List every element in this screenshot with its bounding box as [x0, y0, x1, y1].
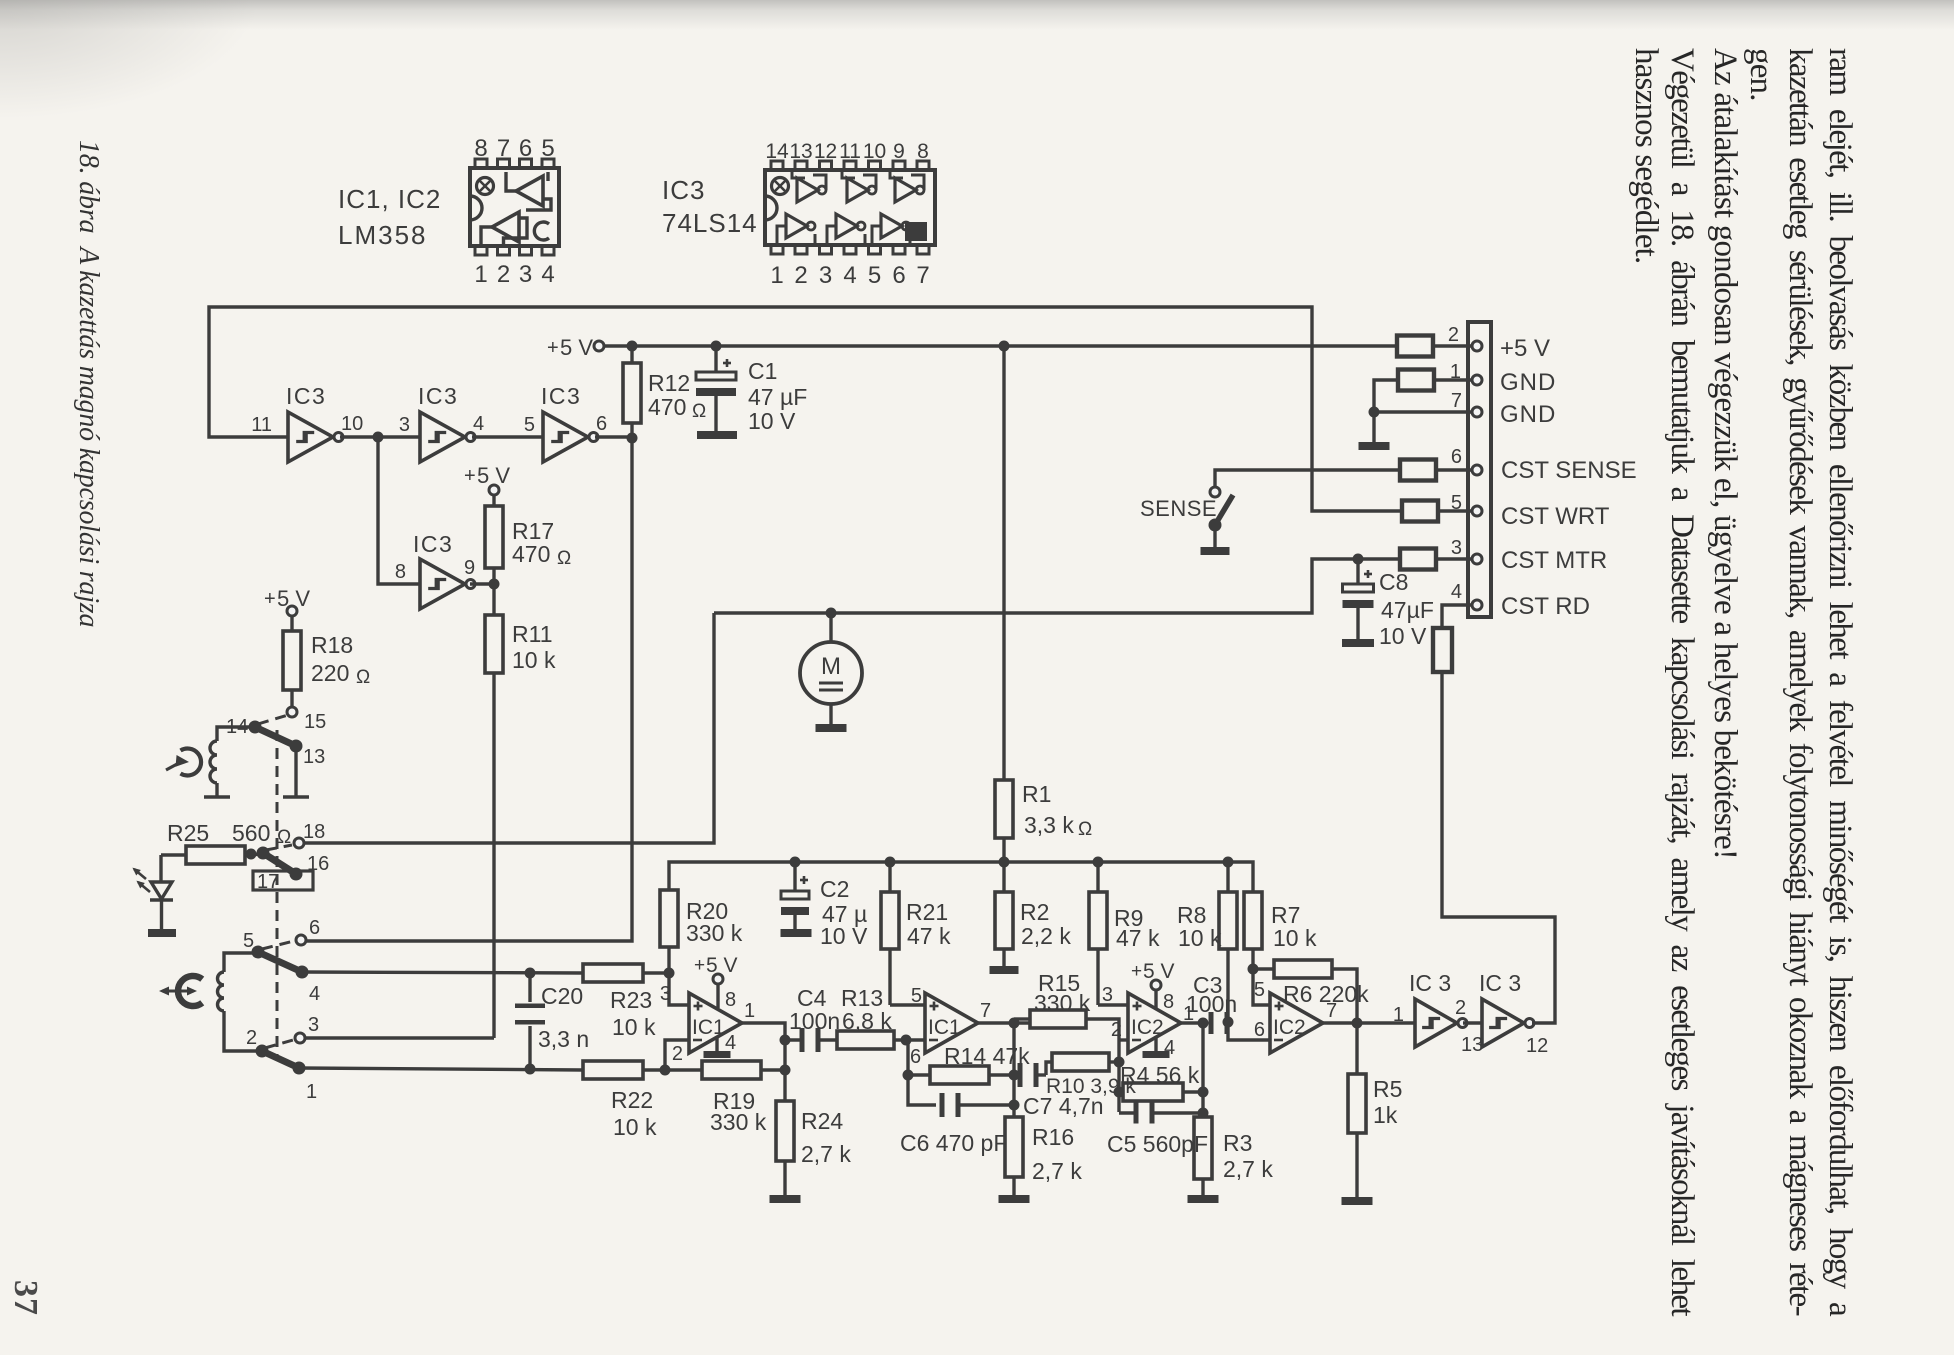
resistor R8: [1226, 862, 1229, 892]
svg-text:560: 560: [232, 820, 270, 846]
svg-text:Ω: Ω: [692, 401, 706, 422]
wire IC1a pin 2 to R19/R22 node: [665, 1040, 689, 1070]
wire inv5 to inv6: [1463, 1021, 1482, 1024]
node C1 top: [711, 341, 722, 352]
erase head symbol: [181, 749, 202, 776]
connector J1 body: [1468, 322, 1491, 617]
dashed link 16-18: [266, 845, 292, 850]
wire R25 to contact 16: [245, 854, 263, 855]
svg-text:3,3 n: 3,3 n: [538, 1026, 589, 1052]
contact 15 terminal: [287, 707, 297, 717]
svg-text:2,7 k: 2,7 k: [1223, 1156, 1273, 1182]
svg-text:2: 2: [246, 1027, 257, 1049]
svg-text:CST RD: CST RD: [1501, 593, 1590, 620]
svg-text:GND: GND: [1500, 369, 1556, 396]
ferrite bead pin 2: [1397, 336, 1433, 357]
node C6 junction: [1009, 1100, 1020, 1111]
wire R21 to IC1 pin 5: [890, 1003, 925, 1006]
body text line 5: [1662, 48, 1702, 1315]
svg-text:4: 4: [309, 983, 320, 1005]
svg-text:7: 7: [1326, 1000, 1337, 1022]
contact 6 terminal: [296, 935, 306, 945]
svg-text:6: 6: [1451, 446, 1462, 468]
ground below R16: [999, 1195, 1030, 1203]
svg-text:IC3: IC3: [541, 383, 581, 409]
ground GND pins: [1359, 442, 1390, 450]
svg-text:1: 1: [1450, 361, 1461, 383]
svg-text:3: 3: [399, 414, 410, 436]
svg-text:10: 10: [341, 413, 363, 435]
resistor R17: [492, 495, 495, 506]
IC package pinout 74LS14 (IC3): [765, 170, 935, 245]
svg-text:47µF: 47µF: [1381, 597, 1434, 623]
page number 37: [5, 1280, 45, 1316]
resistor R7: [1244, 892, 1262, 949]
resistor R3: [1194, 1117, 1212, 1179]
node C20 bottom: [525, 1064, 536, 1075]
resistor R9: [1096, 862, 1099, 892]
svg-text:11: 11: [839, 140, 861, 163]
svg-text:1: 1: [306, 1081, 317, 1103]
svg-text:4: 4: [725, 1032, 736, 1054]
wire +5V rail to connector: [604, 344, 1398, 347]
node C3/R8 junction: [1223, 1017, 1234, 1028]
svg-text:CST SENSE: CST SENSE: [1501, 457, 1637, 484]
svg-text:9: 9: [464, 557, 475, 579]
node C5 right: [1198, 1108, 1209, 1119]
svg-text:1: 1: [744, 1000, 755, 1022]
svg-text:10 k: 10 k: [512, 647, 556, 673]
wire coil to ground: [215, 783, 218, 797]
svg-text:100n: 100n: [1186, 991, 1237, 1017]
op-amp IC2a: [1128, 993, 1181, 1053]
svg-text:7: 7: [980, 1000, 991, 1022]
node R12 bottom junction: [627, 433, 638, 444]
svg-text:R11: R11: [512, 621, 553, 647]
svg-text:3: 3: [519, 261, 532, 288]
body text line 2: [1780, 48, 1820, 1315]
svg-text:6: 6: [309, 917, 320, 939]
motor M1: [829, 613, 832, 642]
wire R11 to contact 3: [305, 1036, 494, 1039]
LED arrows: [134, 869, 146, 879]
connector pin 4 CST RD: [1472, 600, 1482, 610]
wire IC2a output: [1181, 1021, 1207, 1024]
resistor R10: [1046, 1062, 1052, 1075]
svg-text:5: 5: [868, 262, 881, 289]
svg-text:6: 6: [892, 262, 905, 289]
svg-text:15: 15: [304, 711, 326, 733]
wire contact 4 to R23: [302, 972, 583, 973]
svg-text:IC2: IC2: [1273, 1016, 1306, 1039]
svg-text:R21: R21: [906, 899, 948, 925]
node R19 right: [780, 1065, 791, 1076]
LED D1: [151, 882, 172, 899]
svg-text:Ω: Ω: [356, 667, 370, 688]
node R7/R6 junction: [1248, 964, 1259, 975]
node R20 bottom / pin3 junction: [664, 968, 675, 979]
capacitor C6: [940, 1093, 945, 1117]
svg-text:330 k: 330 k: [710, 1109, 767, 1135]
svg-text:13: 13: [1461, 1034, 1483, 1056]
svg-text:R23: R23: [610, 987, 652, 1013]
svg-text:CST MTR: CST MTR: [1501, 547, 1607, 574]
wire IC1a output: [741, 1023, 801, 1040]
node R1 bus: [999, 857, 1010, 868]
dashed link 14-15: [258, 715, 288, 724]
ground IC1a pin 4: [715, 1037, 718, 1051]
svg-text:10 V: 10 V: [748, 408, 796, 434]
contact 3 terminal: [295, 1033, 305, 1043]
svg-text:LM358: LM358: [338, 220, 428, 250]
figure caption (rotated): [68, 140, 108, 627]
svg-text:2: 2: [794, 262, 807, 289]
svg-text:18: 18: [303, 821, 325, 843]
svg-text:2: 2: [497, 261, 510, 288]
wire inv1 to inv2: [340, 435, 420, 438]
node motor junction: [826, 608, 837, 619]
wire R23 node to IC1 pin 3: [669, 973, 689, 1005]
body text line 6: [1626, 48, 1666, 264]
capacitor C8 (electrolytic): [1356, 559, 1359, 584]
svg-text:3: 3: [1451, 537, 1462, 559]
svg-text:5: 5: [911, 985, 922, 1007]
ground below C1: [697, 431, 737, 439]
svg-text:IC3: IC3: [413, 531, 453, 557]
svg-text:C20: C20: [541, 983, 583, 1009]
svg-text:14: 14: [765, 140, 789, 163]
svg-text:3: 3: [308, 1014, 319, 1036]
svg-text:10 V: 10 V: [1379, 623, 1427, 649]
svg-text:9: 9: [893, 140, 905, 163]
svg-text:R24: R24: [801, 1108, 843, 1134]
wire contact 13 to ground: [294, 746, 297, 797]
svg-text:47 µF: 47 µF: [748, 384, 807, 410]
svg-text:R2: R2: [1020, 899, 1049, 925]
svg-text:2: 2: [1448, 324, 1459, 346]
svg-text:GND: GND: [1500, 401, 1556, 428]
svg-text:3: 3: [1102, 984, 1113, 1006]
resistor R20: [660, 890, 678, 947]
ferrite bead pin 1: [1398, 370, 1434, 391]
switch arm 2-1: [262, 1051, 299, 1068]
connector pin 1 GND: [1472, 375, 1482, 385]
svg-text:1: 1: [770, 262, 783, 289]
wire motor feed (CST MTR): [714, 559, 1400, 613]
wire R25 to LED: [159, 855, 162, 882]
svg-text:R5: R5: [1373, 1076, 1402, 1102]
wire contact 14 to erase head coil: [217, 727, 255, 741]
ground below R3: [1188, 1195, 1219, 1203]
svg-text:3: 3: [819, 262, 832, 289]
connector pin 7 GND: [1472, 407, 1482, 417]
svg-text:R4 56 k: R4 56 k: [1120, 1062, 1200, 1088]
wire bead2 to pin 2: [1433, 344, 1472, 347]
capacitor C20: [528, 973, 531, 1002]
ferrite bead pin 3: [1400, 549, 1436, 570]
ground below LED: [148, 929, 176, 937]
wire bead6 to pin 6: [1436, 468, 1472, 471]
resistor R14: [908, 1073, 930, 1076]
svg-text:R1: R1: [1022, 781, 1051, 807]
svg-text:IC2: IC2: [1131, 1016, 1164, 1039]
svg-text:220: 220: [311, 660, 349, 686]
ground below SENSE: [1201, 547, 1230, 555]
wire long vertical from inv3 node down to contact 6 wire: [305, 438, 632, 941]
svg-text:2: 2: [1455, 997, 1466, 1019]
IC package pinout LM358 (IC1/IC2): [470, 168, 559, 246]
wire contact 1 to R22: [299, 1068, 583, 1070]
svg-text:Ω: Ω: [557, 548, 571, 569]
resistor R6: [1253, 967, 1274, 970]
wire SENSE to ground: [1213, 525, 1216, 547]
svg-text:10 k: 10 k: [613, 1114, 657, 1140]
node IC2a output: [1198, 1018, 1209, 1029]
svg-text:2: 2: [672, 1043, 683, 1065]
svg-text:330 k: 330 k: [1034, 990, 1091, 1016]
wire R9 to IC2 pin 3: [1098, 1003, 1128, 1006]
node IC2b output: [1352, 1018, 1363, 1029]
capacitor C3: [1209, 1012, 1214, 1034]
svg-text:IC1: IC1: [692, 1016, 725, 1039]
svg-text:3,3 k: 3,3 k: [1024, 812, 1074, 838]
wire coil bottom to contact 2: [224, 1011, 262, 1051]
capacitor C7: [1018, 1063, 1023, 1087]
capacitor C1 (electrolytic): [714, 346, 717, 372]
svg-text:10 k: 10 k: [1273, 925, 1317, 951]
svg-text:+: +: [464, 465, 476, 487]
wire inv3 output to R12 node: [595, 435, 632, 438]
wire bead to pin 4: [1442, 605, 1472, 628]
svg-text:4: 4: [541, 261, 554, 288]
ground below R2: [990, 966, 1019, 974]
svg-text:1: 1: [1393, 1004, 1404, 1026]
svg-text:R25: R25: [167, 820, 209, 846]
wire IC1b inverting branch: [906, 1040, 936, 1105]
svg-text:6,8 k: 6,8 k: [842, 1008, 892, 1034]
svg-text:5: 5: [1451, 492, 1462, 514]
svg-text:IC3: IC3: [286, 383, 326, 409]
dashed link 2-3: [265, 1040, 293, 1048]
svg-text:4: 4: [473, 413, 484, 435]
node junction inv1 output: [373, 432, 384, 443]
wire CST WRT feedback loop (top): [209, 307, 1402, 511]
wire inv2 to inv3: [472, 435, 543, 438]
svg-text:470: 470: [648, 394, 686, 420]
svg-text:4: 4: [843, 262, 856, 289]
node R10/pin2 junction: [1114, 1057, 1125, 1068]
resistor R2: [1002, 862, 1005, 892]
svg-text:8: 8: [474, 135, 487, 162]
svg-text:7: 7: [1451, 390, 1462, 412]
svg-text:8: 8: [917, 140, 929, 163]
node IC1b pin 6 junction: [901, 1035, 912, 1046]
resistor R4: [1119, 1090, 1123, 1093]
wire IC2a fb vertical: [1201, 1023, 1204, 1117]
switch arm 14-13 (erase head select): [255, 727, 296, 746]
svg-text:+5 V: +5 V: [1500, 335, 1550, 362]
record head L2 coil: [218, 972, 224, 1011]
svg-text:47 k: 47 k: [907, 923, 951, 949]
ferrite bead CST RD: [1433, 628, 1452, 672]
wire inv4 out to R17/R11 node: [470, 582, 494, 585]
ground below R24: [770, 1195, 801, 1203]
node R21 bus: [885, 857, 896, 868]
node IC1b output: [1009, 1018, 1020, 1029]
svg-text:Ω: Ω: [1078, 819, 1092, 840]
svg-text:C6 470 pF: C6 470 pF: [900, 1130, 1007, 1156]
svg-text:IC1, IC2: IC1, IC2: [338, 184, 441, 214]
node R4 left: [1114, 1087, 1125, 1098]
wire inv1 to inv4 branch: [378, 437, 420, 584]
resistor R12: [630, 346, 633, 363]
ground below motor: [816, 724, 847, 732]
svg-text:+: +: [547, 337, 559, 359]
svg-text:47 k: 47 k: [1116, 925, 1160, 951]
svg-text:C2: C2: [820, 876, 849, 902]
body text line 4: [1705, 48, 1745, 859]
svg-text:+: +: [264, 588, 276, 610]
wire contact 18 to motor line: [304, 613, 714, 843]
connector pin 5 CST WRT: [1472, 506, 1482, 516]
svg-text:1: 1: [474, 261, 487, 288]
svg-text:10 k: 10 k: [612, 1014, 656, 1040]
resistor R5: [1355, 1023, 1358, 1074]
svg-text:6: 6: [596, 413, 607, 435]
svg-text:13: 13: [789, 140, 812, 163]
node C20 top: [525, 968, 536, 979]
inverter U3b IC3 pins 3-4: [420, 412, 465, 462]
ferrite bead pin 6: [1400, 460, 1436, 481]
ferrite bead pin 5: [1402, 501, 1438, 522]
ground below C8: [1342, 639, 1374, 647]
svg-text:12: 12: [814, 140, 837, 163]
connector pin 3 CST MTR: [1472, 554, 1482, 564]
ground IC2a pin 4: [1154, 1037, 1157, 1051]
node C8 junction: [1353, 554, 1364, 565]
inverter U3e IC3 pins 1-2: [1415, 999, 1457, 1047]
svg-text:6: 6: [1254, 1019, 1265, 1041]
capacitor C4: [800, 1028, 805, 1052]
resistor R25: [186, 846, 245, 864]
resistor R24: [776, 1101, 794, 1161]
svg-text:11: 11: [251, 414, 272, 436]
svg-text:10 k: 10 k: [1178, 925, 1222, 951]
svg-text:10: 10: [863, 140, 886, 163]
svg-text:SENSE: SENSE: [1140, 496, 1217, 521]
svg-text:13: 13: [303, 746, 325, 768]
node R1 top at +5V rail: [999, 341, 1010, 352]
node inv4 output junction: [489, 579, 500, 590]
switch arm 5-4 (head to amp): [258, 952, 302, 972]
node R12 top: [627, 341, 638, 352]
svg-text:IC 3: IC 3: [1479, 970, 1521, 996]
op-amp IC2b: [1270, 993, 1323, 1053]
svg-text:R18: R18: [311, 632, 353, 658]
wire IC2b output: [1323, 1021, 1415, 1024]
resistor R23: [583, 964, 643, 982]
cam 17 box: [253, 871, 313, 890]
inverter U3d IC3 pins 8-9: [420, 559, 465, 609]
svg-text:6: 6: [910, 1046, 921, 1068]
svg-text:2: 2: [1111, 1019, 1122, 1041]
svg-text:8: 8: [725, 989, 736, 1011]
dashed link 5-6: [262, 941, 294, 949]
body text line 1: [1820, 48, 1860, 1315]
switch arm SENSE: [1215, 495, 1233, 525]
wire R19 node vertical: [783, 1040, 786, 1101]
erase head L1 coil: [210, 741, 217, 783]
svg-text:2,7 k: 2,7 k: [1032, 1158, 1082, 1184]
contact SENSE top terminal: [1210, 487, 1220, 497]
svg-text:3: 3: [660, 983, 671, 1005]
resistor R22: [583, 1061, 643, 1079]
node R4 right: [1198, 1087, 1209, 1098]
svg-text:8: 8: [395, 561, 406, 583]
svg-text:5 V: 5 V: [560, 335, 593, 360]
svg-text:IC3: IC3: [418, 383, 458, 409]
node R14 left: [903, 1070, 914, 1081]
wire bead5 to pin 5: [1438, 509, 1472, 512]
resistor R16: [1005, 1117, 1023, 1177]
svg-text:R16: R16: [1032, 1124, 1074, 1150]
svg-text:C1: C1: [748, 358, 777, 384]
capacitor C5: [1134, 1103, 1139, 1124]
svg-text:470: 470: [512, 541, 550, 567]
inverter U3f IC3 pins 13-12: [1482, 999, 1524, 1047]
wire R15 to IC2a pin2 branch: [1086, 1019, 1119, 1112]
svg-text:17: 17: [257, 871, 279, 893]
wire IC1b output: [978, 1021, 1030, 1024]
connector pin 2 +5V: [1472, 341, 1482, 351]
svg-text:4: 4: [1451, 581, 1462, 603]
svg-text:1k: 1k: [1373, 1102, 1398, 1128]
resistor R15: [1030, 1010, 1086, 1028]
ground below C2: [781, 929, 812, 937]
contact 18 terminal: [294, 838, 304, 848]
node C7/R14 junction: [1009, 1070, 1020, 1081]
connector pin 6 CST SENSE: [1472, 465, 1482, 475]
switch arm 16 (record interlock): [263, 853, 296, 874]
svg-text:7: 7: [497, 135, 510, 162]
svg-text:2,7 k: 2,7 k: [801, 1141, 851, 1167]
svg-text:8: 8: [1163, 991, 1174, 1013]
wire GND pin1 loop: [1374, 380, 1398, 442]
svg-text:100n: 100n: [789, 1008, 840, 1034]
node R9 bus: [1093, 857, 1104, 868]
resistor R13: [837, 1031, 894, 1049]
svg-text:C8: C8: [1379, 569, 1408, 595]
op-amp IC1a: [689, 993, 742, 1053]
inverter U3a IC3 pins 11-10: [288, 412, 333, 462]
svg-text:5: 5: [1254, 979, 1265, 1001]
wire SENSE to connector: [1215, 470, 1400, 487]
resistor R19: [665, 1068, 702, 1071]
svg-text:330 k: 330 k: [686, 920, 743, 946]
svg-text:IC 3: IC 3: [1409, 970, 1451, 996]
resistor R11: [492, 584, 495, 615]
ground below R5: [1342, 1197, 1373, 1205]
op-amp IC1b: [925, 993, 978, 1053]
svg-text:5: 5: [524, 414, 535, 436]
svg-text:5: 5: [541, 135, 554, 162]
svg-text:2,2 k: 2,2 k: [1021, 923, 1071, 949]
wire analog supply bus: [669, 862, 1253, 892]
wire R7 node to IC2b pin 5: [1253, 969, 1270, 1005]
resistor R18: [290, 616, 293, 631]
inverter U3c IC3 pins 5-6: [543, 412, 588, 462]
node R25/arm junction: [246, 849, 257, 860]
